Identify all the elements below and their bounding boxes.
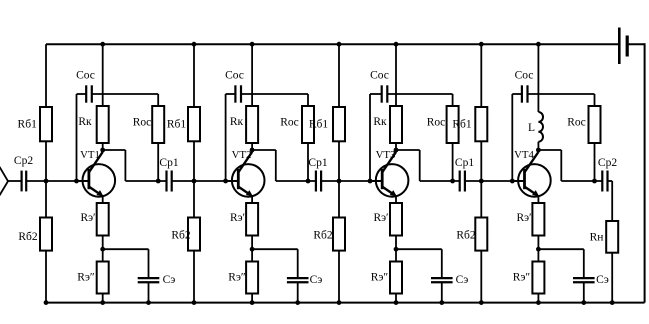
label Rб1 stage 2 <box>167 119 187 131</box>
svg-text:Roc: Roc <box>427 116 446 128</box>
node feedback tap stage 2 <box>223 179 228 184</box>
resistor Rэ' stage 3 <box>390 203 402 236</box>
wire collector to corner stage 2 <box>252 149 276 151</box>
label Rэ' stage 3 <box>373 212 388 224</box>
wire input to Cр2 <box>8 180 21 182</box>
node Rб2 ground stage 3 <box>337 300 342 305</box>
node collector stage 3 <box>394 148 399 153</box>
label Ср2 stage 4 <box>598 157 617 169</box>
wire collector to corner stage 4 <box>538 149 561 151</box>
svg-text:Сос: Сос <box>515 70 534 82</box>
wire L to collector <box>537 142 539 151</box>
wire Cэ top stage 3 <box>441 249 443 278</box>
resistor Rб2 stage 2 <box>188 218 200 251</box>
wire Rб2 to ground rail stage 2 <box>193 251 195 303</box>
wire base node to tap stage 3 <box>339 180 370 182</box>
resistor Rк stage 1 <box>97 106 109 143</box>
node Rб2 ground stage 4 <box>479 300 484 305</box>
wire tap to base stage 3 <box>370 180 382 182</box>
wire Rос bottom stage 1 <box>157 143 159 181</box>
resistor Rб1 stage 3 <box>333 107 345 141</box>
svg-text:Ср1: Ср1 <box>308 157 327 169</box>
node rail collector feed stage 3 <box>394 42 399 47</box>
wire Rк to collector stage 3 <box>395 143 397 151</box>
wire tap to base stage 4 <box>512 180 524 182</box>
wire Rос top stage 1 <box>157 94 159 106</box>
svg-text:Rэ′: Rэ′ <box>230 212 245 224</box>
capacitor Cос stage 3 <box>382 85 388 102</box>
svg-text:Rэ″: Rэ″ <box>513 272 531 284</box>
wire junction to Rэ" stage 4 <box>537 249 539 261</box>
resistor Rос stage 3 <box>447 106 459 143</box>
capacitor Ср1 stage 3 <box>460 171 465 192</box>
wire Cос to Rос stage 1 <box>92 93 158 95</box>
svg-text:Roc: Roc <box>280 116 299 128</box>
label Ср1 stage 3 <box>455 157 474 169</box>
transistor VT3 <box>376 152 409 197</box>
svg-text:Сос: Сос <box>370 70 389 82</box>
wire tap vertical stage 1 <box>76 94 78 181</box>
wire Rб1 to base node stage 3 <box>338 141 340 181</box>
label Rос stage 2 <box>280 116 299 128</box>
resistor Rос stage 4 <box>589 106 601 143</box>
wire emitter to Rэ' stage 3 <box>395 196 397 203</box>
wire output stage 3 <box>420 180 460 182</box>
node emitter junction stage 4 <box>536 247 541 252</box>
label Cос stage 4 <box>515 70 534 82</box>
label Rк stage 2 <box>230 116 244 128</box>
label Cос stage 1 <box>76 70 95 82</box>
transistor VT1 <box>83 152 116 197</box>
wire Cос to Rос stage 2 <box>241 93 308 95</box>
svg-text:Rк: Rк <box>230 116 244 128</box>
node rail Rб1 stage 4 <box>479 42 484 47</box>
resistor Rб1 stage 4 <box>475 107 487 141</box>
label Rб2 stage 4 <box>456 230 476 242</box>
svg-text:Ср1: Ср1 <box>159 157 178 169</box>
node divider stage 4 <box>479 179 484 184</box>
node rail collector feed stage 1 <box>100 42 105 47</box>
label L <box>528 122 535 134</box>
resistor Rэ' stage 4 <box>532 203 544 236</box>
wire Rб2 to ground rail stage 3 <box>338 251 340 303</box>
label Rб2 stage 2 <box>171 230 191 242</box>
label Cэ stage 3 <box>456 274 469 286</box>
svg-text:Rб2: Rб2 <box>171 230 191 242</box>
wire base node to tap stage 2 <box>194 180 226 182</box>
resistor Rб1 stage 1 <box>40 107 52 141</box>
wire base node to tap stage 4 <box>481 180 512 182</box>
wire Rэ" to ground stage 2 <box>251 294 253 303</box>
wire Rос top stage 2 <box>307 94 309 106</box>
svg-text:VT2: VT2 <box>232 149 252 161</box>
node collector stage 1 <box>100 148 105 153</box>
resistor Rэ" stage 3 <box>390 262 402 294</box>
node rail Rб1 stage 3 <box>337 42 342 47</box>
label Ср1 stage 1 <box>159 157 178 169</box>
wire tap corner to Cос stage 2 <box>226 93 236 95</box>
label Rк stage 1 <box>78 116 92 128</box>
node Rос output stage 4 <box>592 179 597 184</box>
node emitter junction stage 1 <box>100 247 105 252</box>
wire Cэ top stage 4 <box>583 249 585 278</box>
wire output stage 4 <box>561 180 602 182</box>
label Cос stage 3 <box>370 70 389 82</box>
wire output stage 2 <box>276 180 316 182</box>
label Rос stage 3 <box>427 116 446 128</box>
wire Rос top stage 3 <box>452 94 454 106</box>
svg-text:Ср2: Ср2 <box>598 157 617 169</box>
top power rail wire <box>46 43 619 45</box>
capacitor Cос stage 4 <box>522 85 528 102</box>
node Cэ ground stage 3 <box>439 300 444 305</box>
wire Rб1 to base node stage 1 <box>45 141 47 181</box>
label Rэ' stage 2 <box>230 212 245 224</box>
label Rэ" stage 4 <box>513 272 531 284</box>
wire tap corner to Cос stage 1 <box>77 93 87 95</box>
wire output stage 1 <box>125 180 166 182</box>
label Cос stage 2 <box>225 70 244 82</box>
input terminal arrow <box>0 167 8 196</box>
wire Cос to Rос stage 4 <box>528 93 595 95</box>
node rail collector feed stage 4 <box>536 42 541 47</box>
wire Rб2 to ground rail stage 4 <box>480 251 482 303</box>
svg-text:Rб2: Rб2 <box>18 231 38 243</box>
label Cэ stage 1 <box>163 274 176 286</box>
svg-text:Rн: Rн <box>590 232 604 244</box>
wire base node to Rб2 stage 3 <box>338 181 340 218</box>
capacitor Cэ stage 3 <box>431 278 453 282</box>
label Rб1 stage 3 <box>309 119 329 131</box>
wire rail to inductor L <box>537 44 539 112</box>
capacitor Cос stage 1 <box>86 85 92 102</box>
transistor VT2 <box>232 152 265 197</box>
node feedback tap stage 3 <box>368 179 373 184</box>
svg-text:Сэ: Сэ <box>596 274 609 286</box>
wire battery to right edge <box>627 43 644 45</box>
wire junction to Cэ stage 1 <box>103 248 149 250</box>
node rail Rб1 stage 2 <box>192 42 197 47</box>
wire Rк to collector stage 2 <box>251 143 253 151</box>
wire Rб2 to ground rail stage 1 <box>45 251 47 303</box>
label VT2 <box>232 149 252 161</box>
wire Rб1 to base node stage 2 <box>193 141 195 181</box>
wire Cэ bottom stage 3 <box>441 282 443 302</box>
svg-text:Ср2: Ср2 <box>14 155 33 167</box>
wire emitter to Rэ' stage 2 <box>251 196 253 203</box>
svg-text:Rк: Rк <box>78 116 92 128</box>
node Cэ ground stage 1 <box>146 300 151 305</box>
label Rн <box>590 232 604 244</box>
wire rail to Rк stage 1 <box>102 44 104 106</box>
resistor Rб2 stage 1 <box>40 218 52 251</box>
wire base node to Rб2 stage 1 <box>45 181 47 218</box>
wire rail to Rб1 stage 2 <box>193 44 195 107</box>
resistor Rэ" stage 2 <box>246 262 258 294</box>
bottom ground rail wire <box>46 302 645 304</box>
svg-text:Ср1: Ср1 <box>455 157 474 169</box>
label Rб1 stage 4 <box>452 119 472 131</box>
label Rэ" stage 3 <box>371 272 389 284</box>
wire Rэ" to ground stage 3 <box>395 294 397 303</box>
svg-text:VT3: VT3 <box>376 149 396 161</box>
svg-text:Rэ″: Rэ″ <box>77 272 95 284</box>
wire tap vertical stage 3 <box>369 94 371 181</box>
node Rн ground <box>610 300 615 305</box>
wire Rб1 to base node stage 4 <box>480 141 482 181</box>
wire tap vertical stage 4 <box>511 94 513 181</box>
wire corner down stage 1 <box>124 150 126 181</box>
node Rэ" ground stage 4 <box>536 300 541 305</box>
wire Rк to collector stage 1 <box>102 143 104 151</box>
resistor Rб2 stage 4 <box>475 218 487 251</box>
right edge wire <box>644 43 646 302</box>
node Rос output stage 3 <box>450 179 455 184</box>
resistor Rэ" stage 4 <box>532 262 544 294</box>
resistor Rэ' stage 1 <box>97 203 109 236</box>
wire Cр2 to Rн corner <box>608 180 613 182</box>
capacitor Cэ stage 2 <box>287 278 309 282</box>
wire Rос bottom stage 3 <box>452 143 454 181</box>
capacitor Cэ stage 1 <box>138 278 160 282</box>
node Rос output stage 2 <box>306 179 311 184</box>
battery GB1 <box>619 28 627 65</box>
label Rэ' stage 1 <box>80 212 95 224</box>
wire Rэ" to ground stage 4 <box>537 294 539 303</box>
resistor Rк stage 3 <box>390 106 402 143</box>
resistor Rос stage 2 <box>302 106 314 143</box>
wire tap corner to Cос stage 4 <box>512 93 521 95</box>
wire Ср1 to next stage <box>172 180 194 182</box>
wire tap to base stage 1 <box>77 180 89 182</box>
capacitor Ср2 stage 4 <box>602 171 607 192</box>
node divider stage 2 <box>192 179 197 184</box>
svg-text:Rб2: Rб2 <box>313 230 333 242</box>
node emitter junction stage 3 <box>394 247 399 252</box>
wire Ср1 to next stage <box>321 180 339 182</box>
wire base node to tap stage 1 <box>46 180 77 182</box>
node Rэ" ground stage 3 <box>394 300 399 305</box>
wire Rн to ground rail <box>611 253 613 303</box>
label Cэ stage 2 <box>310 274 323 286</box>
label Rб2 stage 3 <box>313 230 333 242</box>
wire Rос bottom stage 2 <box>307 143 309 181</box>
wire base node to Rб2 stage 4 <box>480 181 482 218</box>
capacitor Ср1 stage 1 <box>167 171 172 192</box>
svg-text:Сэ: Сэ <box>456 274 469 286</box>
inductor L <box>538 112 543 142</box>
node divider stage 3 <box>337 179 342 184</box>
svg-text:Roc: Roc <box>567 116 586 128</box>
label Cэ stage 4 <box>596 274 609 286</box>
wire collector to corner stage 3 <box>396 149 420 151</box>
wire Rос top stage 4 <box>594 94 596 106</box>
wire rail to Rк stage 2 <box>251 44 253 106</box>
wire collector to corner stage 1 <box>103 149 126 151</box>
capacitor Cос stage 2 <box>235 85 241 102</box>
wire tap vertical stage 2 <box>225 94 227 181</box>
svg-text:Rб1: Rб1 <box>18 119 38 131</box>
wire corner down stage 3 <box>419 150 421 181</box>
label VT1 <box>80 149 100 161</box>
svg-text:Сэ: Сэ <box>310 274 323 286</box>
label Rэ' stage 4 <box>516 212 531 224</box>
label Rб2 stage 1 <box>18 231 38 243</box>
wire Rэ" to ground stage 1 <box>102 294 104 303</box>
svg-text:Сэ: Сэ <box>163 274 176 286</box>
wire Cр2 to divider node <box>26 180 46 182</box>
wire Rэ' to junction stage 2 <box>251 236 253 250</box>
wire base node to Rб2 stage 2 <box>193 181 195 218</box>
wire tap to base stage 2 <box>226 180 239 182</box>
wire Cэ bottom stage 1 <box>148 282 150 302</box>
svg-text:Rб2: Rб2 <box>456 230 476 242</box>
node Cэ ground stage 2 <box>295 300 300 305</box>
node Rэ" ground stage 1 <box>100 300 105 305</box>
svg-text:VT1: VT1 <box>80 149 100 161</box>
resistor Rос stage 1 <box>152 106 164 143</box>
label Rэ" stage 2 <box>228 272 246 284</box>
wire corner down stage 2 <box>275 150 277 181</box>
wire Rос bottom stage 4 <box>594 143 596 181</box>
capacitor Ср1 stage 2 <box>316 171 321 192</box>
label Ср1 stage 2 <box>308 157 327 169</box>
wire rail to Rб1 stage 4 <box>480 44 482 107</box>
label VT4 <box>514 149 534 161</box>
svg-text:Rэ′: Rэ′ <box>373 212 388 224</box>
label Cр2 input <box>14 155 33 167</box>
wire corner down stage 4 <box>560 150 562 181</box>
wire Rэ' to junction stage 4 <box>537 236 539 250</box>
wire tap corner to Cос stage 3 <box>370 93 382 95</box>
svg-text:Rк: Rк <box>373 116 387 128</box>
node Rэ" ground stage 2 <box>250 300 255 305</box>
label Rк stage 3 <box>373 116 387 128</box>
wire junction to Cэ stage 2 <box>252 248 298 250</box>
wire Rэ' to junction stage 3 <box>395 236 397 250</box>
node Rб2 ground stage 1 <box>44 300 49 305</box>
svg-text:VT4: VT4 <box>514 149 534 161</box>
resistor Rб1 stage 2 <box>188 107 200 141</box>
resistor Rэ" stage 1 <box>97 262 109 294</box>
svg-text:Rб1: Rб1 <box>167 119 187 131</box>
wire emitter to Rэ' stage 1 <box>102 196 104 203</box>
wire Cэ bottom stage 2 <box>297 282 299 302</box>
wire rail to Rб1 stage 1 <box>45 44 47 107</box>
svg-text:Rб1: Rб1 <box>309 119 329 131</box>
wire rail to Rб1 stage 3 <box>338 44 340 107</box>
svg-text:Roc: Roc <box>133 116 152 128</box>
node Cэ ground stage 4 <box>581 300 586 305</box>
svg-text:Rэ″: Rэ″ <box>228 272 246 284</box>
node feedback tap stage 1 <box>74 179 79 184</box>
wire Cос to Rос stage 3 <box>388 93 453 95</box>
svg-text:L: L <box>528 122 535 134</box>
resistor Rк stage 2 <box>246 106 258 143</box>
label Rб1 stage 1 <box>18 119 38 131</box>
label Rэ" stage 1 <box>77 272 95 284</box>
wire corner down to Rн <box>611 181 613 221</box>
wire junction to Rэ" stage 1 <box>102 249 104 261</box>
resistor Rб2 stage 3 <box>333 218 345 251</box>
wire junction to Rэ" stage 2 <box>251 249 253 261</box>
wire Cэ bottom stage 4 <box>583 282 585 302</box>
wire junction to Cэ stage 3 <box>396 248 442 250</box>
wire Cэ top stage 1 <box>148 249 150 278</box>
node rail collector feed stage 2 <box>250 42 255 47</box>
label VT3 <box>376 149 396 161</box>
svg-text:Rэ′: Rэ′ <box>80 212 95 224</box>
label Rос stage 1 <box>133 116 152 128</box>
svg-text:Сос: Сос <box>225 70 244 82</box>
svg-text:Сос: Сос <box>76 70 95 82</box>
resistor Rэ' stage 2 <box>246 203 258 236</box>
svg-text:Rэ′: Rэ′ <box>516 212 531 224</box>
node Rос output stage 1 <box>156 179 161 184</box>
capacitor Cэ stage 4 <box>573 278 595 282</box>
svg-text:Rэ″: Rэ″ <box>371 272 389 284</box>
node Rб2 ground stage 2 <box>192 300 197 305</box>
wire Ср1 to next stage <box>465 180 481 182</box>
transistor VT4 <box>518 152 551 197</box>
node collector stage 4 <box>536 148 541 153</box>
node divider stage 1 <box>44 179 49 184</box>
capacitor Cр2 (input) <box>22 171 27 192</box>
label Rос stage 4 <box>567 116 586 128</box>
resistor Rн <box>606 221 618 253</box>
wire emitter to Rэ' stage 4 <box>537 196 539 203</box>
wire rail to Rк stage 3 <box>395 44 397 106</box>
wire Cэ top stage 2 <box>297 249 299 278</box>
wire junction to Cэ stage 4 <box>538 248 583 250</box>
node collector stage 2 <box>250 148 255 153</box>
wire junction to Rэ" stage 3 <box>395 249 397 261</box>
node feedback tap stage 4 <box>510 179 515 184</box>
svg-text:Rб1: Rб1 <box>452 119 472 131</box>
wire Rэ' to junction stage 1 <box>102 236 104 250</box>
node emitter junction stage 2 <box>250 247 255 252</box>
